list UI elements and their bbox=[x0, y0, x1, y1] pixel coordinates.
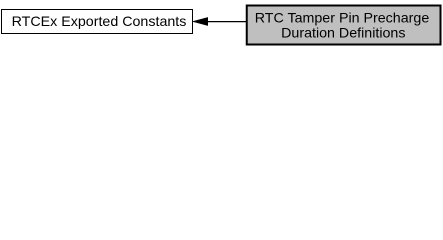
node: RTCEx Exported Constants (box) bbox=[2, 10, 193, 34]
svg-text:RTCEx Exported Constants: RTCEx Exported Constants bbox=[12, 14, 187, 30]
arrowhead pointing at left node bbox=[194, 18, 208, 25]
svg-text:RTC Tamper Pin Precharge: RTC Tamper Pin Precharge bbox=[255, 11, 430, 27]
svg-text:Duration Definitions: Duration Definitions bbox=[281, 25, 405, 41]
wire: edge line from right node to arrowhead bbox=[206, 21, 247, 23]
node: RTC Tamper Pin Precharge Duration Definitions (highlighted box) bbox=[247, 6, 441, 45]
